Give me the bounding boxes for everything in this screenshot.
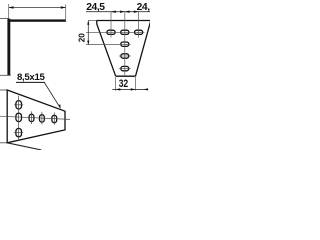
- svg-text:24,5: 24,5: [86, 2, 105, 13]
- svg-text:24,5: 24,5: [137, 2, 150, 13]
- svg-text:20: 20: [78, 33, 87, 43]
- svg-text:32: 32: [119, 78, 129, 90]
- svg-text:8,5x15: 8,5x15: [17, 72, 46, 83]
